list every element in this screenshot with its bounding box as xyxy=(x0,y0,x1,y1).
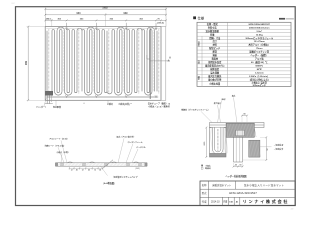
svg-text:196.5: 196.5 xyxy=(46,19,52,21)
svg-text:(196.5): (196.5) xyxy=(157,22,164,24)
svg-text:A: A xyxy=(169,57,171,60)
svg-text:60.5: 60.5 xyxy=(204,142,206,146)
svg-text:12.6kg: 12.6kg xyxy=(256,34,263,36)
svg-text:50: 50 xyxy=(235,165,237,167)
svg-text:820kPa: 820kPa xyxy=(255,66,263,68)
svg-text:リンナイ株式会社: リンナイ株式会社 xyxy=(243,198,289,204)
svg-text:50: 50 xyxy=(243,114,245,116)
svg-text:934: 934 xyxy=(76,12,81,15)
svg-text:1.2L/min: 1.2L/min xyxy=(255,72,265,74)
svg-text:50: 50 xyxy=(240,165,242,167)
svg-text:HFM-12DA-SKD1527: HFM-12DA-SKD1527 xyxy=(229,191,257,195)
svg-text:2014.10: 2014.10 xyxy=(211,200,220,203)
svg-text:909: 909 xyxy=(25,60,28,65)
svg-text:909: 909 xyxy=(124,12,129,15)
svg-text:(303): (303) xyxy=(135,168,140,170)
svg-text:1982: 1982 xyxy=(102,7,108,10)
svg-text:12: 12 xyxy=(267,149,269,151)
svg-text:75mm: 75mm xyxy=(256,48,262,50)
svg-text:仕様: 仕様 xyxy=(198,15,205,20)
